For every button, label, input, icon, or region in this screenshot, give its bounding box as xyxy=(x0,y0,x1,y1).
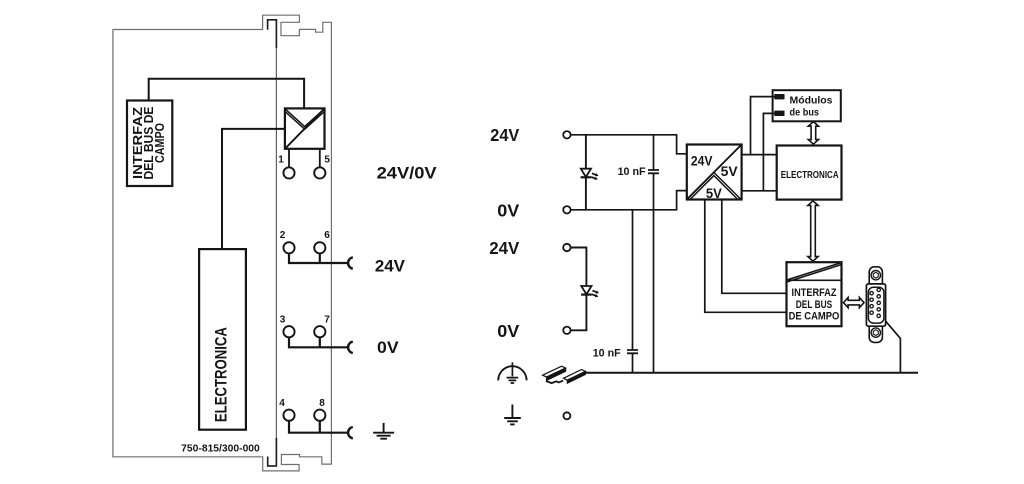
terminal 0V upper (open circle) xyxy=(563,206,570,213)
wire 24V lower to LED D2 xyxy=(571,248,587,287)
DC/DC converter T1 box (left module) xyxy=(285,108,325,148)
wire row 4/8 to clamp xyxy=(289,421,347,433)
svg-text:10 nF: 10 nF xyxy=(593,348,621,360)
svg-text:10 nF: 10 nF xyxy=(618,166,646,178)
capacitor C1 10nF upper lead xyxy=(653,135,655,170)
svg-text:750-815/300-000: 750-815/300-000 xyxy=(181,444,260,455)
svg-text:5V: 5V xyxy=(721,164,738,179)
LED D1 emission arrows xyxy=(591,172,599,178)
DIN rail clamp symbol xyxy=(543,366,586,383)
svg-text:ELECTRONICA: ELECTRONICA xyxy=(211,327,230,422)
cage clamp row 4 xyxy=(348,427,353,438)
LED D1 wire upper xyxy=(585,135,587,210)
wire row 2/6 to clamp xyxy=(289,253,347,263)
capacitor C2 lower lead xyxy=(632,353,634,373)
DB9 connector top ear xyxy=(869,267,882,288)
svg-text:6: 6 xyxy=(324,230,330,241)
svg-text:3: 3 xyxy=(280,314,286,325)
box U1 INTERFAZ DEL BUS DE CAMPO (left module) xyxy=(127,101,172,187)
svg-text:DE CAMPO: DE CAMPO xyxy=(789,310,840,322)
wire U1 top to converter top xyxy=(149,79,304,109)
module latch hook bottom xyxy=(268,438,277,466)
terminal circle 5 xyxy=(314,167,325,178)
box U2 ELECTRONICA (left module) xyxy=(199,249,246,430)
terminal 24V upper (open circle) xyxy=(563,131,570,138)
LED D2 triangle xyxy=(581,286,591,294)
svg-text:ELECTRONICA: ELECTRONICA xyxy=(781,170,839,181)
svg-text:24V: 24V xyxy=(375,256,406,275)
terminal circle 4 xyxy=(283,410,294,421)
wire 5V lower output xyxy=(742,190,777,192)
converter T2 5V output wire to interfaz upper xyxy=(722,200,787,294)
svg-text:0V: 0V xyxy=(497,200,519,220)
module latch hook top xyxy=(268,20,277,48)
terminal circle 2 xyxy=(283,242,294,253)
pin stub 5 xyxy=(319,149,321,167)
DB9 top screw circle xyxy=(871,271,880,280)
svg-text:DEL BUS: DEL BUS xyxy=(796,299,832,311)
module housing outline xyxy=(113,15,332,471)
capacitor C1 lower lead to earth rail xyxy=(653,173,655,372)
double arrow bus module / electronica xyxy=(808,122,818,145)
DB9 pins column left (4) xyxy=(870,292,873,315)
box U3 INTERFAZ DEL BUS DE CAMPO right xyxy=(787,262,842,326)
terminal circle 3 xyxy=(283,326,294,337)
svg-text:1: 1 xyxy=(278,155,284,166)
functional earth stem and bars xyxy=(507,362,519,383)
wire U2 top to converter left xyxy=(222,129,285,249)
svg-text:0V: 0V xyxy=(377,338,399,357)
box Modulos de bus xyxy=(773,90,841,121)
svg-text:2: 2 xyxy=(280,230,286,241)
wire LED D2 to 0V terminal xyxy=(571,295,587,331)
terminal 0V lower (open circle) xyxy=(563,327,570,334)
double arrow electronica / interfaz xyxy=(808,201,818,261)
terminal circle 7 xyxy=(314,326,325,337)
capacitor C2 upper lead from 0V rail xyxy=(632,210,634,350)
svg-text:5V: 5V xyxy=(706,186,722,201)
pin stub 1 xyxy=(288,149,290,167)
double arrow interfaz / DB9 xyxy=(844,298,865,308)
ground symbol lower left xyxy=(504,405,521,425)
svg-text:0V: 0V xyxy=(497,321,519,341)
DC/DC T1 diagonal xyxy=(285,108,325,148)
wire branch to bus module pin 2 xyxy=(763,113,775,190)
bus module pin pad 1 xyxy=(774,94,784,99)
svg-text:24V/0V: 24V/0V xyxy=(377,163,438,182)
svg-text:5: 5 xyxy=(324,155,330,166)
earth rail xyxy=(575,372,918,374)
svg-text:24V: 24V xyxy=(489,238,519,258)
converter T2 5V output wire to interfaz lower xyxy=(705,200,787,313)
svg-text:24V: 24V xyxy=(691,154,713,169)
LED D2 emission arrows xyxy=(592,289,600,295)
DB9 face xyxy=(868,287,884,323)
cage clamp row 2 xyxy=(348,257,353,268)
DB9 drain wire to earth rail xyxy=(886,321,901,373)
ground symbol left module xyxy=(373,423,394,439)
svg-text:CAMPO: CAMPO xyxy=(152,123,167,163)
wire row 3/7 to clamp xyxy=(289,337,347,347)
svg-text:Módulos: Módulos xyxy=(790,95,833,107)
DB9 connector bottom ear xyxy=(869,322,882,342)
capacitor C2 plates xyxy=(627,350,638,353)
DC/DC converter T2 box xyxy=(687,145,742,200)
capacitor C1 plates xyxy=(648,170,659,173)
DC/DC T2 double chevron xyxy=(687,172,740,199)
DB9 connector body xyxy=(866,284,885,326)
DB9 bottom screw circle xyxy=(871,328,880,337)
LED D2 cathode bar xyxy=(581,294,592,296)
terminal circle 6 xyxy=(314,242,325,253)
svg-text:4: 4 xyxy=(279,398,285,409)
terminal circle 1 xyxy=(283,167,294,178)
functional earth symbol (arc) xyxy=(498,366,526,380)
svg-text:8: 8 xyxy=(319,398,325,409)
wire 5V upper output xyxy=(742,154,777,156)
DB9 bottom screw hex xyxy=(873,330,878,336)
terminal circle 8 xyxy=(314,410,325,421)
DB9 top screw hex xyxy=(873,272,878,278)
box ELECTRONICA right xyxy=(777,146,842,200)
svg-text:de bus: de bus xyxy=(790,107,820,119)
LED D1 cathode bar xyxy=(581,176,592,178)
wire branch to bus module pin 1 xyxy=(751,97,776,155)
terminal 24V lower (open circle) xyxy=(563,244,570,251)
bus module pin pad 2 xyxy=(774,111,784,116)
module channel separator line xyxy=(275,20,277,466)
terminal PE (open circle) xyxy=(563,412,570,419)
DC/DC T1 double chevron xyxy=(285,109,324,129)
wire 0V rail to converter xyxy=(571,191,687,210)
svg-text:7: 7 xyxy=(324,314,330,325)
svg-text:INTERFAZ: INTERFAZ xyxy=(792,287,837,299)
U3 isolation stripe xyxy=(787,263,842,282)
LED D1 triangle xyxy=(581,169,591,177)
DB9 pins column right (5) xyxy=(877,288,880,317)
cage clamp row 3 xyxy=(348,342,353,353)
DC/DC T2 diagonal xyxy=(687,145,742,200)
svg-text:24V: 24V xyxy=(490,125,519,145)
wire 24V rail to converter xyxy=(571,135,687,154)
